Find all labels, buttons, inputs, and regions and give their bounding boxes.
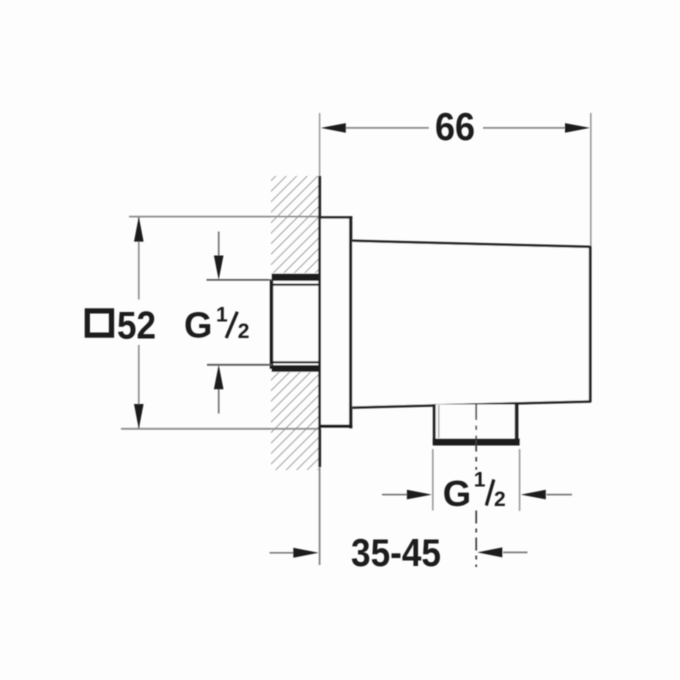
svg-text:1: 1 — [216, 304, 228, 327]
svg-text:52: 52 — [117, 304, 156, 347]
svg-text:2: 2 — [238, 320, 250, 343]
svg-text:G: G — [443, 473, 471, 514]
svg-text:1: 1 — [474, 469, 486, 492]
svg-text:2: 2 — [494, 488, 506, 511]
svg-text:35-45: 35-45 — [351, 532, 441, 575]
svg-text:G: G — [184, 305, 212, 346]
svg-text:66: 66 — [435, 106, 475, 149]
